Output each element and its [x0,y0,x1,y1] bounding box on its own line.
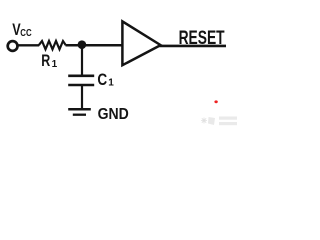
wire [160,45,227,48]
svg-text:C: C [97,71,107,89]
node VCC label [12,20,32,39]
svg-text:1: 1 [52,59,58,70]
wire [81,85,83,109]
node junction [78,40,87,49]
wire [81,45,83,76]
svg-text:R: R [41,51,50,70]
svg-text:CC: CC [20,28,31,39]
capacitor C1 [68,76,94,85]
terminal VCC [8,41,18,51]
label R1 [41,51,57,70]
resistor R1 [39,41,66,49]
buffer U1 [122,21,160,65]
wire [66,44,122,47]
svg-text:GND: GND [98,106,129,123]
svg-text:RESET: RESET [179,27,225,49]
ground [68,109,91,115]
wire [18,44,40,46]
watermark [201,117,237,126]
red mark [214,100,217,103]
label C1 [97,71,114,89]
svg-text:1: 1 [108,78,114,89]
